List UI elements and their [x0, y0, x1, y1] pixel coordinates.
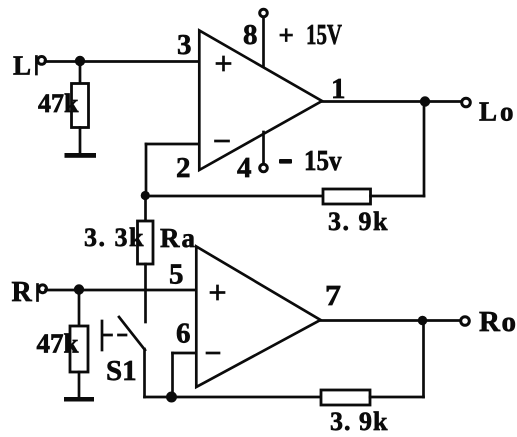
wire resistor R3 to ground	[78, 372, 81, 398]
op-amp U2 minus input symbol	[207, 352, 219, 355]
resistor 3.9k (bottom feedback)	[321, 390, 370, 405]
op-amp U2 plus input symbol	[211, 286, 224, 299]
ground (bottom)	[64, 397, 94, 402]
svg-text:L: L	[13, 51, 31, 81]
resistor Ra 3.3k	[138, 221, 154, 264]
wire pin 6 down to bottom rail	[171, 353, 174, 397]
wire bottom rail up to U2 output	[422, 320, 425, 397]
wire junction to resistor R3	[78, 289, 81, 326]
wire U1 output down to feedback	[423, 102, 426, 197]
op-amp U1 plus input symbol	[217, 57, 230, 70]
svg-text:5: 5	[169, 259, 184, 291]
label - 15v	[279, 159, 292, 164]
switch S1 actuator dashed link	[104, 334, 127, 337]
terminal -15v	[260, 164, 268, 172]
node junction pin2/feedback/Ra	[141, 191, 150, 200]
wire pin 6 horizontal	[173, 352, 197, 355]
svg-text:47k: 47k	[37, 329, 79, 359]
wire resistor R1 to ground	[79, 128, 82, 155]
wire switch to bottom rail	[143, 349, 146, 397]
resistor R3 47k	[70, 326, 88, 372]
wire bottom rail right segment	[370, 396, 424, 399]
svg-text:Ra: Ra	[160, 223, 197, 253]
node junction at U2 output	[418, 316, 427, 325]
wire bottom rail left segment	[145, 396, 323, 399]
wire junction to resistor R1	[79, 61, 82, 84]
node junction at R input	[74, 284, 84, 294]
svg-text:+: +	[279, 20, 294, 50]
wire feedback right segment	[371, 195, 425, 198]
resistor 3.9k (top feedback)	[323, 189, 371, 204]
svg-text:R: R	[12, 277, 33, 308]
output terminal Lo	[462, 98, 471, 107]
input terminal R	[38, 285, 47, 301]
op-amp U1	[199, 31, 322, 171]
wire Ra down to switch contact (crosses R wire)	[144, 264, 147, 322]
svg-text:47k: 47k	[38, 89, 79, 118]
svg-text:3: 3	[177, 29, 192, 61]
svg-text:8: 8	[243, 19, 258, 51]
wire L input to pin 3	[45, 60, 199, 63]
op-amp U2	[196, 247, 320, 388]
svg-text:7: 7	[325, 280, 341, 312]
node junction at L input	[75, 56, 85, 66]
op-amp U1 minus input symbol	[216, 140, 229, 143]
wire U1 output to Lo	[321, 100, 462, 103]
terminal +15V	[260, 9, 268, 17]
svg-text:4: 4	[237, 152, 252, 184]
switch S1 blade	[119, 317, 145, 350]
svg-text:2: 2	[176, 152, 191, 184]
wire pin 2 down to node	[145, 144, 148, 196]
svg-text:15V: 15V	[306, 20, 342, 51]
wire pin 4 to -15v terminal	[262, 132, 265, 164]
svg-text:3. 9k: 3. 9k	[328, 207, 389, 236]
wire feedback left segment	[146, 195, 324, 198]
svg-text:S1: S1	[106, 355, 137, 387]
wire pin 8 to +15V terminal	[262, 18, 265, 67]
svg-text:3. 9k: 3. 9k	[330, 407, 388, 436]
switch S1 actuator bar	[101, 321, 104, 350]
svg-text:Lo: Lo	[479, 97, 517, 127]
node junction pin6/bottom rail	[166, 392, 177, 403]
wire node to resistor Ra	[144, 196, 147, 221]
resistor R1 47k	[72, 84, 89, 128]
wire pin 2 horizontal	[146, 143, 199, 146]
node junction at U1 output	[420, 96, 430, 106]
svg-text:Ro: Ro	[479, 306, 517, 338]
output terminal Ro	[461, 317, 470, 326]
ground (top)	[65, 153, 97, 158]
svg-text:6: 6	[176, 318, 191, 350]
wire U2 output to Ro	[320, 319, 460, 322]
svg-text:3. 3k: 3. 3k	[84, 223, 145, 252]
input terminal L	[36, 57, 45, 75]
wire R input to pin 5	[46, 289, 197, 292]
svg-text:15v: 15v	[304, 146, 342, 177]
